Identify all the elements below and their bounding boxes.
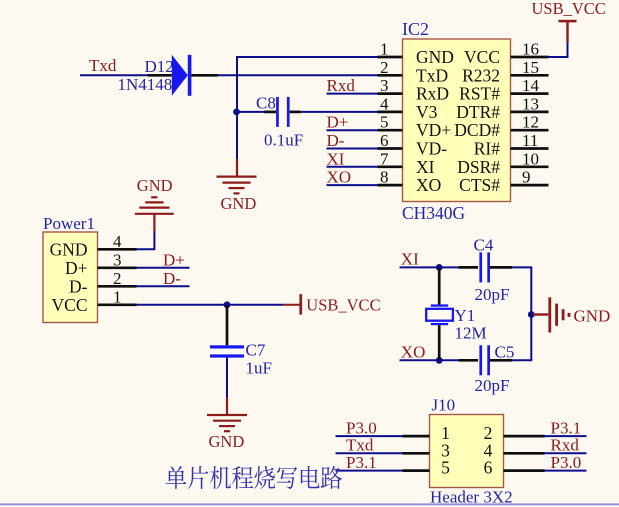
J10 pin 6 stub — [504, 469, 545, 472]
svg-text:3: 3 — [113, 250, 122, 269]
svg-text:9: 9 — [522, 168, 531, 187]
svg-text:2: 2 — [380, 58, 389, 77]
capacitor C8 right stub — [290, 111, 301, 114]
svg-text:0.1uF: 0.1uF — [264, 131, 303, 150]
capacitor C8 left plate — [276, 97, 279, 127]
svg-text:3: 3 — [380, 76, 389, 95]
svg-text:13: 13 — [522, 94, 539, 113]
svg-text:12M: 12M — [455, 324, 487, 343]
power USB_VCC bar (mid) — [299, 294, 302, 314]
junction node XI — [436, 264, 443, 271]
svg-text:XO: XO — [401, 343, 426, 362]
wire net XO stub — [327, 184, 378, 186]
svg-text:4: 4 — [380, 94, 389, 113]
IC2 pin 9 stub — [511, 184, 549, 187]
svg-text:5: 5 — [441, 458, 450, 478]
svg-text:CH340G: CH340G — [402, 203, 466, 223]
svg-text:USB_VCC: USB_VCC — [306, 295, 380, 314]
connector J10 body — [430, 415, 504, 488]
junction node right rail — [528, 311, 535, 318]
wire C7 to ground — [226, 358, 228, 398]
svg-text:2: 2 — [113, 269, 122, 288]
wire net Rxd stub — [327, 93, 378, 95]
capacitor C4 right stub — [490, 266, 512, 269]
svg-text:P3.1: P3.1 — [551, 418, 582, 437]
wire net XI stub — [327, 166, 378, 168]
capacitor C7 top stub — [226, 305, 229, 346]
wire net D+ stub — [327, 129, 378, 131]
IC2 pin 15 stub — [511, 74, 549, 77]
IC2 pin 8 stub — [378, 184, 403, 187]
svg-text:11: 11 — [522, 131, 538, 150]
svg-text:7: 7 — [380, 149, 389, 168]
wire node to C8 — [237, 111, 265, 113]
svg-text:D+: D+ — [65, 258, 88, 278]
caption 单片机程烧写电路 — [166, 466, 342, 489]
wire net P3.1 left — [336, 470, 403, 472]
svg-text:1N4148: 1N4148 — [118, 75, 173, 94]
IC2 pin 1 stub — [378, 56, 403, 59]
IC2 pin 13 stub — [511, 111, 549, 114]
diode D12 anode stub — [148, 74, 172, 77]
wire net D- stub — [327, 148, 378, 150]
svg-text:RST#: RST# — [459, 84, 500, 104]
IC2 pin 10 stub — [511, 165, 549, 168]
svg-text:GND: GND — [221, 194, 257, 213]
IC2 pin 5 stub — [378, 129, 403, 132]
svg-text:DCD#: DCD# — [454, 120, 500, 140]
junction node VCC/C7 — [224, 301, 231, 308]
svg-text:1: 1 — [380, 40, 389, 59]
J10 pin 1 stub — [403, 435, 430, 438]
svg-text:DSR#: DSR# — [457, 157, 500, 177]
Power1 pin 1 stub — [98, 303, 137, 306]
capacitor C5 right plate — [487, 345, 490, 375]
svg-text:D-: D- — [327, 131, 345, 150]
svg-text:VD-: VD- — [416, 139, 447, 159]
IC2 pin 14 stub — [511, 92, 549, 95]
wire C5 to right rail — [512, 359, 532, 361]
svg-text:GND: GND — [50, 239, 88, 259]
svg-text:D-: D- — [69, 276, 88, 296]
power USB_VCC bar — [559, 20, 577, 23]
capacitor C5 left plate — [479, 345, 482, 375]
IC U-IC2 body (CH340G) — [403, 39, 511, 202]
svg-text:CTS#: CTS# — [459, 175, 500, 195]
wire net Txd left — [336, 452, 403, 454]
diode D12 triangle — [172, 55, 188, 96]
J10 pin 5 stub — [403, 469, 430, 472]
ground symbol flipped (Power1) — [151, 196, 157, 198]
svg-text:Rxd: Rxd — [327, 76, 356, 95]
wire C4 to right rail — [512, 266, 532, 268]
svg-text:IC2: IC2 — [402, 19, 429, 39]
wire diode to IC2 pin 2 — [218, 74, 378, 76]
svg-text:XO: XO — [327, 168, 352, 187]
wire XO net — [400, 359, 459, 361]
svg-text:Txd: Txd — [346, 436, 374, 455]
wire net Rxd right — [545, 452, 587, 454]
svg-text:10: 10 — [522, 149, 539, 168]
diode D12 cathode stub — [191, 74, 218, 77]
svg-text:RxD: RxD — [416, 84, 449, 104]
svg-text:P3.1: P3.1 — [346, 453, 377, 472]
svg-text:8: 8 — [380, 168, 389, 187]
wire C8 to IC2 pin 4 — [301, 111, 378, 113]
svg-text:Txd: Txd — [89, 56, 117, 75]
svg-text:USB_VCC: USB_VCC — [532, 0, 606, 18]
svg-text:5: 5 — [380, 113, 389, 132]
Power1 pin 3 stub — [98, 266, 137, 269]
wire Power1 pin4 to ground — [137, 230, 155, 249]
IC2 pin 3 stub — [378, 92, 403, 95]
wire vertical GND net — [236, 56, 238, 160]
IC2 pin 11 stub — [511, 147, 549, 150]
junction node XO — [436, 357, 443, 364]
svg-text:C5: C5 — [495, 343, 515, 362]
svg-text:Rxd: Rxd — [551, 436, 580, 455]
Power1 pin 2 stub — [98, 285, 137, 288]
capacitor C4 left plate — [479, 252, 482, 282]
capacitor C5 right stub — [490, 359, 512, 362]
svg-text:6: 6 — [484, 458, 493, 478]
wire XI net — [400, 266, 459, 268]
wire Power1 VCC to port — [137, 304, 284, 306]
wire net P3.0 left — [336, 435, 403, 437]
Power1 pin 4 stub — [98, 248, 137, 251]
svg-text:1: 1 — [113, 287, 122, 306]
svg-text:TxD: TxD — [416, 65, 448, 85]
svg-text:14: 14 — [522, 76, 540, 95]
svg-text:Power1: Power1 — [43, 214, 95, 233]
ground stem (C7) — [226, 397, 228, 414]
junction node C8/GND — [233, 109, 240, 116]
svg-text:6: 6 — [380, 131, 389, 150]
IC2 pin 2 stub — [378, 74, 403, 77]
crystal Y1 body — [426, 309, 453, 321]
ground symbol (C7) — [207, 414, 247, 416]
sheet border line — [0, 503, 619, 505]
svg-text:VD+: VD+ — [416, 120, 451, 140]
capacitor C4 right plate — [487, 252, 490, 282]
crystal Y1 top stub — [438, 267, 441, 305]
wire IC2 pin 1 to node — [236, 56, 378, 58]
svg-text:VCC: VCC — [52, 295, 88, 315]
svg-text:1uF: 1uF — [246, 359, 272, 378]
svg-text:P3.0: P3.0 — [551, 453, 582, 472]
wire VCC port segment (maroon) — [283, 304, 300, 306]
crystal Y1 top plate — [431, 304, 448, 306]
crystal Y1 bottom plate — [431, 323, 448, 325]
svg-text:D+: D+ — [163, 250, 185, 269]
wire net P3.1 right — [545, 435, 587, 437]
svg-text:C7: C7 — [246, 340, 266, 359]
IC2 pin 12 stub — [511, 129, 549, 132]
ground stem (Power1) — [153, 215, 155, 232]
J10 pin 3 stub — [403, 452, 430, 455]
ground symbol (C8 net) — [217, 176, 257, 178]
wire IC2 pin16 to power — [548, 42, 568, 58]
svg-text:VCC: VCC — [464, 47, 500, 67]
svg-text:J10: J10 — [432, 396, 456, 415]
capacitor C7 top plate — [210, 345, 244, 348]
svg-text:20pF: 20pF — [475, 285, 510, 304]
svg-text:4: 4 — [113, 232, 122, 251]
IC2 pin 6 stub — [378, 147, 403, 150]
J10 pin 2 stub — [504, 435, 545, 438]
svg-text:20pF: 20pF — [475, 376, 510, 395]
capacitor C5 left stub — [459, 359, 479, 362]
svg-text:C8: C8 — [256, 94, 276, 113]
svg-text:D-: D- — [163, 269, 181, 288]
IC2 pin 7 stub — [378, 165, 403, 168]
svg-text:XI: XI — [327, 149, 345, 168]
capacitor C8 right plate — [287, 97, 290, 127]
wire Txd to diode — [80, 74, 148, 76]
wire net P3.0 right — [545, 470, 587, 472]
svg-text:D+: D+ — [327, 113, 349, 132]
power USB_VCC stem — [566, 22, 568, 42]
wire right rail — [530, 267, 532, 360]
svg-text:C4: C4 — [474, 235, 494, 254]
svg-text:16: 16 — [522, 40, 539, 59]
capacitor C8 left stub — [264, 111, 276, 114]
svg-text:GND: GND — [209, 432, 245, 451]
capacitor C4 left stub — [459, 266, 479, 269]
svg-text:RI#: RI# — [474, 139, 501, 159]
svg-text:12: 12 — [522, 113, 539, 132]
ground symbol rotated (crystal) — [548, 297, 551, 332]
svg-text:XI: XI — [416, 157, 435, 177]
crystal Y1 bottom stub — [438, 325, 441, 360]
svg-text:V3: V3 — [416, 102, 438, 122]
IC2 pin 16 stub — [511, 56, 549, 59]
svg-text:15: 15 — [522, 58, 539, 77]
ground stem (C8 net) — [236, 159, 238, 176]
svg-text:GND: GND — [137, 176, 173, 195]
diode D12 cathode bar — [188, 55, 192, 96]
wire net D+ — [137, 267, 190, 269]
J10 pin 4 stub — [504, 452, 545, 455]
svg-text:GND: GND — [574, 307, 611, 326]
svg-text:Y1: Y1 — [455, 306, 476, 325]
capacitor C7 bottom plate — [210, 354, 244, 357]
connector Power1 body — [43, 232, 98, 323]
svg-text:GND: GND — [416, 47, 454, 67]
svg-text:D12: D12 — [145, 57, 174, 76]
ground stem (crystal) — [533, 313, 549, 315]
svg-text:XO: XO — [416, 175, 441, 195]
svg-text:R232: R232 — [462, 65, 500, 85]
svg-text:XI: XI — [401, 250, 419, 269]
svg-text:DTR#: DTR# — [456, 102, 500, 122]
wire net D- — [137, 285, 190, 287]
svg-text:P3.0: P3.0 — [346, 418, 377, 437]
IC2 pin 4 stub — [378, 111, 403, 114]
